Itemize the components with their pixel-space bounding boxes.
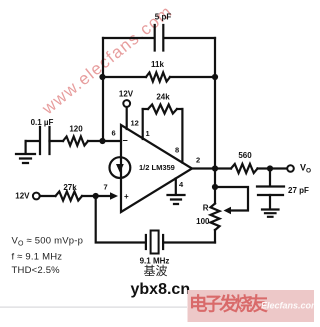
wire 24k left lead [143, 108, 148, 110]
resistor R6 27k [56, 192, 83, 201]
capacitor C1 5pF plates [155, 25, 164, 51]
resistor R1 120 [63, 137, 88, 146]
faint bottom rule [0, 307, 187, 308]
wire pin8 stub [181, 109, 183, 163]
wire crystal left branch [96, 196, 146, 243]
node wiper tap [212, 184, 218, 190]
resistor R3 24k [148, 105, 177, 114]
wire 11k right lead [170, 76, 215, 78]
svg-text:f ≈ 9.1 MHz: f ≈ 9.1 MHz [12, 252, 63, 263]
svg-text:560: 560 [238, 151, 252, 160]
wire cap-to-right [164, 37, 215, 39]
wire 12V to 27k [40, 195, 56, 197]
watermark pink box elecfans [188, 290, 320, 322]
node crystal tap [93, 193, 99, 199]
svg-text:ybx8.cn: ybx8.cn [131, 281, 191, 298]
svg-text:1/2 LM359: 1/2 LM359 [139, 163, 175, 172]
svg-text:12: 12 [131, 119, 139, 128]
wire 27k to pin7 arrow [82, 195, 113, 197]
node top-right of 11k [212, 74, 218, 80]
junction dots [93, 74, 274, 199]
wire 11k left lead [103, 76, 147, 78]
wire cap-to-120 [50, 140, 64, 142]
svg-text:100: 100 [196, 217, 210, 226]
terminal 12V left [33, 193, 40, 200]
potentiometer R5 100 [211, 204, 220, 231]
svg-text:24k: 24k [156, 93, 170, 102]
svg-text:−: − [123, 136, 128, 146]
wire ground-to-cap [26, 140, 40, 142]
resistor R2 11k [146, 73, 170, 82]
svg-text:12V: 12V [15, 192, 30, 201]
wire left vertical top loop [102, 38, 104, 141]
node top-left of 11k [99, 74, 105, 80]
svg-text:0.1 µF: 0.1 µF [31, 118, 54, 127]
svg-text:11k: 11k [151, 60, 164, 69]
node input pin6 [99, 138, 105, 144]
arrowhead into pin7 [110, 192, 118, 200]
svg-text:7: 7 [104, 183, 108, 192]
svg-text:+: + [124, 192, 129, 201]
wire crystal to pot bottom [163, 241, 215, 243]
wire 27pF bottom lead [269, 195, 271, 209]
resistor R4 560 [231, 164, 258, 173]
node 27pF tap [267, 165, 273, 171]
svg-text:2: 2 [196, 156, 200, 165]
ground input [16, 141, 35, 163]
wire pin1 stub [142, 109, 144, 139]
wire wiper loop [215, 187, 248, 211]
current source symbol inside op-amp [110, 157, 131, 178]
svg-text:27k: 27k [63, 183, 77, 192]
svg-text:1: 1 [146, 129, 150, 138]
svg-text:5 pF: 5 pF [155, 13, 172, 22]
wire 120-to-pin6 [88, 140, 121, 142]
svg-text:8: 8 [175, 146, 179, 155]
wire output node down to pot [214, 169, 216, 204]
svg-text:THD<2.5%: THD<2.5% [12, 265, 61, 276]
svg-text:12V: 12V [119, 90, 134, 99]
ground 27pF [262, 210, 279, 217]
ground op-amp pin4 [168, 195, 185, 204]
svg-text:电子发烧友: 电子发烧友 [189, 294, 268, 315]
wire pot bottom lead [214, 230, 216, 243]
capacitor C3 27pF plates [257, 187, 284, 196]
svg-text:基波: 基波 [143, 264, 167, 278]
terminal Vo [287, 165, 294, 172]
wire 24k right lead [177, 108, 182, 110]
svg-text:27 pF: 27 pF [288, 186, 309, 195]
terminal 12V top [123, 100, 130, 107]
wire 560 to Vo terminal [258, 167, 287, 169]
wire right vertical to output node [214, 38, 216, 169]
node output [212, 165, 218, 171]
capacitor C2 0.1uF plates [40, 127, 50, 154]
wire 27pF top lead [269, 169, 271, 187]
arrowhead wiper [224, 207, 232, 214]
crystal Y1 right plate [162, 235, 164, 249]
crystal Y1 body rect [151, 231, 159, 254]
svg-text:Elecfans.com: Elecfans.com [261, 301, 314, 311]
svg-text:6: 6 [112, 129, 116, 138]
op-amp U1 triangle [121, 125, 192, 212]
crystal Y1 left plate [145, 235, 147, 249]
svg-text:120: 120 [69, 125, 83, 134]
wire pin12 supply [126, 107, 128, 130]
wire output to 560 [192, 167, 231, 169]
wire top loop left-to-cap [103, 37, 154, 39]
wire pin4 stub [175, 179, 177, 195]
svg-text:R: R [203, 204, 209, 213]
